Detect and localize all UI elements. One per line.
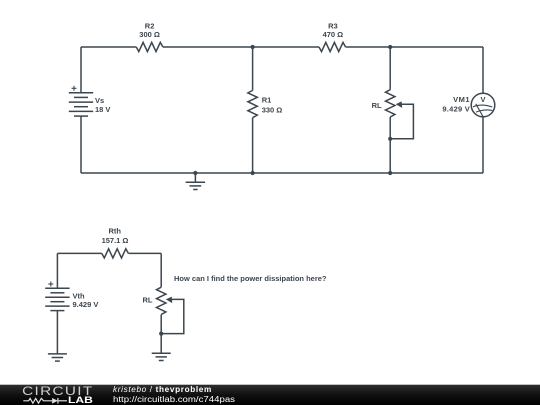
svg-text:Vs: Vs — [95, 96, 104, 105]
wire R1 branch lower — [252, 118, 254, 173]
resistor R3 — [319, 42, 346, 51]
ground Vth — [48, 354, 67, 361]
svg-text:How can I find the power dissi: How can I find the power dissipation her… — [174, 274, 327, 283]
svg-text:VM1: VM1 — [453, 95, 470, 104]
node B — [388, 45, 392, 49]
resistor R2 — [136, 42, 163, 51]
wire bottom rail — [81, 172, 483, 174]
logo resistor-diode line — [23, 398, 67, 404]
node G — [159, 332, 163, 336]
resistor Rth — [102, 249, 129, 258]
footer bar — [0, 385, 540, 405]
svg-text:V: V — [480, 95, 485, 104]
battery Vs — [69, 86, 93, 116]
svg-text:RL: RL — [372, 101, 382, 110]
node A — [251, 45, 255, 49]
node C — [193, 171, 197, 175]
wire right branch upper — [482, 47, 484, 93]
svg-text:9.429 V: 9.429 V — [442, 105, 470, 114]
potentiometer RL — [386, 47, 414, 173]
svg-text:470 Ω: 470 Ω — [323, 30, 344, 39]
wire top rail middle — [163, 46, 319, 48]
wire left branch upper — [80, 47, 82, 93]
ground RL2 — [152, 353, 171, 360]
wire bottom rail 2 — [57, 252, 101, 254]
wire top rail right — [346, 46, 483, 48]
node F — [388, 171, 392, 175]
svg-text:kristebo / thevproblem: kristebo / thevproblem — [113, 385, 212, 394]
wire Vth branch upper — [56, 253, 58, 288]
svg-text:9.429 V: 9.429 V — [73, 300, 99, 309]
wire bottom rail 2 right — [128, 252, 161, 254]
voltmeter VM1 — [471, 93, 495, 117]
wire right branch lower — [482, 117, 484, 173]
svg-text:Rth: Rth — [108, 226, 121, 235]
node E — [388, 137, 392, 141]
svg-text:http://circuitlab.com/c744pas: http://circuitlab.com/c744pas — [113, 395, 235, 404]
potentiometer RL2 — [157, 253, 184, 353]
node D — [251, 171, 255, 175]
wire top rail left — [81, 46, 136, 48]
svg-text:LAB: LAB — [68, 395, 93, 405]
svg-text:300 Ω: 300 Ω — [139, 30, 160, 39]
svg-text:RL: RL — [143, 296, 153, 305]
resistor R1 — [248, 90, 257, 117]
wire R1 branch upper — [252, 47, 254, 90]
svg-text:330 Ω: 330 Ω — [262, 105, 283, 114]
wire Vth branch lower — [56, 311, 58, 354]
svg-text:18 V: 18 V — [95, 105, 110, 114]
battery Vth — [45, 282, 69, 311]
wire left branch lower — [80, 116, 82, 173]
ground — [186, 173, 206, 190]
svg-text:157.1 Ω: 157.1 Ω — [102, 236, 129, 245]
svg-text:R1: R1 — [262, 96, 272, 105]
